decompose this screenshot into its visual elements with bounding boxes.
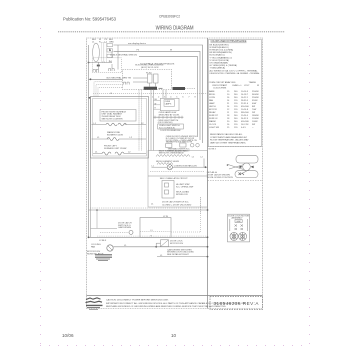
svg-text:3W: 3W bbox=[252, 124, 255, 126]
connector link dash bbox=[159, 87, 163, 89]
oven lamp outer box bbox=[160, 98, 179, 110]
wire N bbox=[114, 51, 201, 140]
latch relay sub box bbox=[162, 181, 174, 199]
legend notes list bbox=[210, 44, 261, 76]
svg-text:BL BLUE(AZUL): BL BLUE(AZUL) bbox=[210, 54, 225, 57]
svg-text:40W: 40W bbox=[252, 103, 256, 105]
drop from N wire bbox=[111, 51, 113, 57]
EOC relay K1 bbox=[148, 74, 153, 83]
dashed rule bbox=[90, 207, 208, 209]
svg-text:350W: 350W bbox=[252, 100, 257, 102]
svg-text:L2 W: L2 W bbox=[163, 216, 168, 218]
dashed bus 1 bbox=[94, 82, 123, 97]
svg-text:LAMPS: LAMPS bbox=[165, 102, 172, 105]
dashed lead from connector bbox=[185, 88, 196, 90]
svg-text:22-31.6: 22-31.6 bbox=[241, 103, 249, 105]
svg-text:MOTOR 120V: MOTOR 120V bbox=[170, 243, 184, 245]
svg-text:ASSEMBLY: ASSEMBLY bbox=[232, 217, 244, 220]
node bbox=[207, 209, 209, 211]
svg-text:VARY AT OTHER TEMPERATURES.: VARY AT OTHER TEMPERATURES. bbox=[210, 141, 246, 144]
terminal block labels bbox=[92, 39, 114, 43]
dashed bus 3 bbox=[98, 88, 123, 97]
legend table header bbox=[209, 81, 260, 90]
cam arrow right bbox=[251, 166, 254, 169]
svg-text:GRD: GRD bbox=[109, 41, 114, 43]
svg-text:CLOSED = DOOR UNLOCKED: CLOSED = DOOR UNLOCKED bbox=[162, 204, 192, 206]
oven lamp inner box bbox=[164, 100, 175, 107]
right column note paragraph bbox=[210, 133, 249, 144]
node fan wire at bus bbox=[207, 246, 209, 248]
svg-text:2500W: 2500W bbox=[252, 91, 259, 93]
bake broil box bbox=[148, 151, 208, 208]
wire row bbox=[152, 166, 168, 168]
svg-text:L1: L1 bbox=[151, 230, 153, 232]
svg-text:CLOCK: CLOCK bbox=[209, 124, 217, 126]
svg-text:SELF CLEAN LATCH CIRCUIT: SELF CLEAN LATCH CIRCUIT bbox=[160, 177, 189, 180]
svg-text:LAMP: LAMP bbox=[209, 102, 215, 105]
EOC dashed box bbox=[123, 70, 172, 90]
svg-text:2500W: 2500W bbox=[252, 97, 259, 99]
solid wire row bbox=[89, 209, 208, 211]
svg-text:MOTOR: MOTOR bbox=[209, 109, 217, 111]
svg-text:WIRING DIAGRAM: WIRING DIAGRAM bbox=[156, 26, 194, 32]
node right bbox=[207, 236, 209, 238]
svg-text:BROIL: BROIL bbox=[209, 94, 216, 96]
wire from fan to bus bbox=[113, 246, 207, 248]
page perforation dots left bbox=[40, 28, 310, 346]
latch cam circle bbox=[243, 163, 251, 171]
wire L2 bbox=[139, 57, 198, 137]
svg-text:CPEB30S9FC2: CPEB30S9FC2 bbox=[159, 14, 180, 18]
svg-text:(EOC) W/ CLOCK: (EOC) W/ CLOCK bbox=[141, 67, 159, 69]
door latch mechanism drawing bbox=[228, 155, 258, 177]
latch lower plate bbox=[235, 171, 258, 178]
dashed row bbox=[150, 171, 205, 173]
convection motor bbox=[167, 165, 172, 170]
svg-text:SURF LF: SURF LF bbox=[209, 118, 218, 120]
svg-text:SURF RT: SURF RT bbox=[209, 115, 219, 117]
svg-text:IN UNLOCKED POSITION: IN UNLOCKED POSITION bbox=[207, 177, 233, 179]
dotted drop bbox=[200, 198, 202, 215]
lamp text rows bbox=[159, 111, 180, 116]
hatched block bbox=[95, 255, 112, 261]
svg-text:2W: 2W bbox=[252, 112, 255, 114]
svg-text:CAUTION: DISCONNECT POWER BEFO: CAUTION: DISCONNECT POWER BEFORE SERVICI… bbox=[106, 299, 169, 302]
svg-text:P1 P2: P1 P2 bbox=[146, 72, 152, 74]
motor terminal circle right bbox=[239, 232, 247, 240]
door lock motor assembly bbox=[228, 214, 250, 242]
svg-text:1800W: 1800W bbox=[252, 115, 259, 117]
footer divider bbox=[87, 295, 263, 297]
svg-text:16-22.1: 16-22.1 bbox=[241, 97, 249, 99]
svg-text:LIGHT SW: LIGHT SW bbox=[209, 127, 219, 129]
connector clip pair right bbox=[109, 69, 111, 71]
svg-text:SABBATH MODE SEE NOTE: SABBATH MODE SEE NOTE bbox=[166, 141, 193, 144]
svg-text:BROIL ELEMENT 3400W: BROIL ELEMENT 3400W bbox=[156, 161, 179, 163]
svg-text:RESISTANCE VALUES FOR ALL: RESISTANCE VALUES FOR ALL bbox=[210, 133, 243, 136]
svg-text:VOLT: VOLT bbox=[244, 85, 250, 87]
svg-text:14-18.7: 14-18.7 bbox=[241, 94, 249, 96]
motor terminal circle left bbox=[230, 232, 238, 240]
svg-text:COLD/OHMS: COLD/OHMS bbox=[213, 88, 227, 90]
right column divider bbox=[207, 38, 209, 309]
svg-text:RUNS W/ LATCH: RUNS W/ LATCH bbox=[87, 253, 104, 256]
surface unit label box bbox=[100, 110, 136, 122]
svg-text:SURFACE UNIT 1200W: SURFACE UNIT 1200W bbox=[104, 147, 126, 150]
dashed bus 2 bbox=[96, 85, 123, 97]
riser to P4 bbox=[111, 64, 113, 69]
svg-text:318546235 REV:A: 318546235 REV:A bbox=[214, 301, 260, 306]
svg-text:19-26.5: 19-26.5 bbox=[241, 115, 249, 117]
svg-text:N.C. OPENS 290F: N.C. OPENS 290F bbox=[176, 187, 194, 189]
svg-text:1200W: 1200W bbox=[252, 118, 259, 120]
broil element coil bbox=[157, 163, 173, 165]
svg-text:10: 10 bbox=[171, 333, 177, 338]
solid row bbox=[148, 175, 208, 177]
surface units box bbox=[91, 97, 149, 159]
node on N wire bbox=[109, 50, 111, 52]
branch to bus bbox=[203, 159, 205, 168]
latch upper plate bbox=[236, 155, 258, 163]
ground pad bbox=[97, 65, 100, 67]
svg-text:L2 BLK: L2 BLK bbox=[99, 240, 107, 242]
left front coils bbox=[102, 152, 124, 155]
header dashed rule bbox=[58, 31, 285, 33]
wire to bus lower bbox=[157, 256, 208, 258]
svg-text:CONV: CONV bbox=[209, 97, 216, 99]
thermal switch symbols bbox=[166, 143, 200, 148]
svg-text:TRADE: TRADE bbox=[249, 81, 257, 84]
node neutral bbox=[90, 78, 92, 80]
surface unit coil symbols bbox=[106, 123, 126, 126]
svg-text:LATCH: LATCH bbox=[209, 105, 216, 108]
svg-text:650-900: 650-900 bbox=[241, 106, 249, 108]
svg-text:24-32.9: 24-32.9 bbox=[241, 118, 249, 120]
latch motor marks bbox=[239, 173, 245, 176]
dashed wire to vent box bbox=[100, 231, 129, 233]
oven vent box bbox=[140, 218, 171, 238]
svg-text:380-560: 380-560 bbox=[241, 112, 249, 114]
bottom text rows of box bbox=[162, 201, 192, 207]
left front wires bbox=[93, 153, 102, 155]
connector P1 stack bbox=[104, 42, 113, 62]
connector column dashed bbox=[102, 43, 107, 63]
latch switch circle bbox=[129, 230, 133, 234]
terminal strip bbox=[153, 116, 183, 118]
door latch switch text bbox=[118, 222, 132, 229]
svg-text:NOTE 3: NOTE 3 bbox=[209, 149, 217, 151]
left bus verticals bbox=[88, 45, 90, 237]
left front unit cluster bbox=[104, 146, 126, 150]
svg-text:ELEMENT 100W: ELEMENT 100W bbox=[107, 134, 123, 136]
bake element coil bbox=[156, 155, 190, 157]
svg-text:10-16.3: 10-16.3 bbox=[241, 91, 249, 93]
EOC title bbox=[135, 64, 164, 69]
ground clip left bbox=[93, 69, 95, 72]
thermal cluster text bbox=[166, 136, 198, 143]
cam arrow left bbox=[240, 166, 243, 169]
ground stem bbox=[97, 62, 99, 69]
service logo bbox=[86, 298, 103, 309]
node conv fan bbox=[205, 166, 207, 168]
oven light switch box bbox=[158, 124, 184, 129]
svg-text:0-0.5: 0-0.5 bbox=[241, 127, 247, 129]
svg-text:BLK NEUTRAL GRN TW: BLK NEUTRAL GRN TW bbox=[107, 76, 132, 79]
svg-text:SWITCHED BY DOOR: SWITCHED BY DOOR bbox=[159, 114, 180, 116]
long dashed rail under EOC bbox=[93, 93, 208, 95]
svg-text:WARM: WARM bbox=[209, 120, 216, 123]
warm zone wires bbox=[92, 138, 110, 140]
svg-text:100W: 100W bbox=[252, 121, 257, 123]
svg-text:DOOR PLUNGER SW: DOOR PLUNGER SW bbox=[160, 130, 180, 132]
node left bus at box top bbox=[88, 97, 90, 99]
lamp wire stubs bbox=[154, 100, 161, 109]
svg-text:L1 BLK NEUTRAL GRN 1N: L1 BLK NEUTRAL GRN 1N bbox=[110, 54, 137, 57]
EOC internal wires bbox=[133, 78, 156, 87]
svg-text:28-39.5: 28-39.5 bbox=[241, 100, 249, 102]
svg-text:10/06: 10/06 bbox=[62, 333, 74, 338]
harness oval bbox=[93, 43, 100, 62]
P4 dashed box bbox=[93, 58, 122, 73]
revision box bbox=[210, 297, 263, 310]
svg-text:FAN: FAN bbox=[209, 99, 214, 102]
svg-text:SEE NOTE 4 RESISTANCE: SEE NOTE 4 RESISTANCE bbox=[159, 152, 185, 155]
drop from L1 wire to control bbox=[117, 45, 119, 70]
svg-text:70W: 70W bbox=[252, 109, 256, 111]
svg-text:CAM DRIVEN: CAM DRIVEN bbox=[118, 226, 132, 229]
door lock motor text bbox=[167, 241, 194, 256]
footer caution text bbox=[106, 299, 247, 308]
svg-text:SEE DETAIL AT RIGHT: SEE DETAIL AT RIGHT bbox=[167, 253, 189, 256]
EOC connector block right bbox=[173, 87, 186, 90]
clip pair inside EOC bbox=[124, 82, 130, 84]
svg-text:FAN: FAN bbox=[91, 246, 96, 249]
legend title bbox=[211, 40, 247, 43]
svg-text:UNLESS NOTED OTHERWISE. GA. NU: UNLESS NOTED OTHERWISE. GA. NUMBER + TER… bbox=[210, 72, 261, 75]
svg-text:10-14.8: 10-14.8 bbox=[241, 109, 249, 111]
main diagram frame bbox=[87, 38, 263, 309]
svg-text:T TAN(CANELA): T TAN(CANELA) bbox=[210, 67, 226, 70]
warm zone cluster bbox=[107, 131, 123, 136]
warm zone coil bbox=[107, 138, 119, 141]
EOC connector block left bbox=[144, 87, 157, 90]
dotted wire above main run bbox=[97, 235, 208, 237]
thermal bottom rows bbox=[168, 148, 191, 153]
wire L1 top bbox=[114, 45, 203, 143]
svg-text:INTERLOCK: INTERLOCK bbox=[176, 194, 189, 196]
neutral wire w/ label bbox=[89, 78, 123, 80]
svg-text:1K-2.2K: 1K-2.2K bbox=[241, 124, 249, 126]
svg-text:8W: 8W bbox=[252, 106, 255, 108]
svg-text:one display device: one display device bbox=[128, 43, 147, 45]
drops from EOC to lower circuits bbox=[139, 90, 166, 151]
svg-text:430-580: 430-580 bbox=[241, 121, 249, 123]
svg-text:RELAY: RELAY bbox=[209, 111, 216, 114]
svg-text:RENT ARE GROUNDED. IF GROUNDIN: RENT ARE GROUNDED. IF GROUNDING WIRES AR… bbox=[106, 305, 227, 308]
node at latch relay bbox=[155, 246, 157, 248]
latch labels bbox=[207, 171, 233, 179]
cooling fan motor cluster bbox=[87, 244, 104, 256]
surface unit wires bbox=[92, 124, 107, 126]
latch relay labels bbox=[176, 183, 194, 196]
cooling fan circle bbox=[107, 245, 113, 251]
legend box outline bbox=[209, 40, 262, 147]
EOC relay K2 bbox=[154, 74, 159, 83]
latch pointer dot bbox=[227, 164, 229, 166]
node lower wire at bus bbox=[207, 256, 209, 258]
svg-text:Publication No: 5995476453: Publication No: 5995476453 bbox=[63, 16, 117, 21]
latch lever lines bbox=[228, 165, 244, 170]
wire stub into latch area bbox=[91, 227, 118, 229]
light switch caption rows bbox=[158, 120, 179, 124]
latch relay cluster bbox=[156, 240, 168, 247]
svg-text:3400W: 3400W bbox=[252, 94, 259, 96]
node left bbox=[88, 236, 90, 238]
bake text rows bbox=[159, 150, 187, 155]
svg-text:SEE NOTE 6 LIMITER: SEE NOTE 6 LIMITER bbox=[102, 119, 124, 121]
right column divider 3 bbox=[208, 180, 263, 182]
svg-text:OHMS +/-: OHMS +/- bbox=[232, 85, 242, 87]
long wire row bbox=[89, 236, 208, 238]
svg-text:OVEN CIRCUIT ANALYSIS: OVEN CIRCUIT ANALYSIS bbox=[209, 81, 236, 84]
wire GRD partial bbox=[89, 62, 113, 64]
ground clip right bbox=[96, 69, 98, 72]
svg-text:N.O. (CONSOLE): N.O. (CONSOLE) bbox=[159, 127, 175, 129]
vent box inner dashed row bbox=[140, 231, 171, 233]
cam micro switches marks bbox=[235, 225, 244, 231]
dotted box area right bbox=[200, 197, 202, 232]
svg-text:BAKE: BAKE bbox=[209, 90, 215, 93]
svg-text:COMPONENTS ARE MEASURED AT: COMPONENTS ARE MEASURED AT bbox=[210, 136, 247, 139]
svg-text:CAM: CAM bbox=[236, 220, 241, 223]
node GRD bbox=[88, 62, 90, 64]
legend table rows bbox=[209, 90, 259, 129]
svg-text:W: W bbox=[155, 103, 157, 105]
svg-text:ROOM TEMPERATURE. VALUES MAY: ROOM TEMPERATURE. VALUES MAY bbox=[210, 139, 249, 142]
right column divider 2 bbox=[208, 146, 263, 148]
svg-text:DOOR LATCH SWITCH N.C.: DOOR LATCH SWITCH N.C. bbox=[162, 201, 189, 204]
